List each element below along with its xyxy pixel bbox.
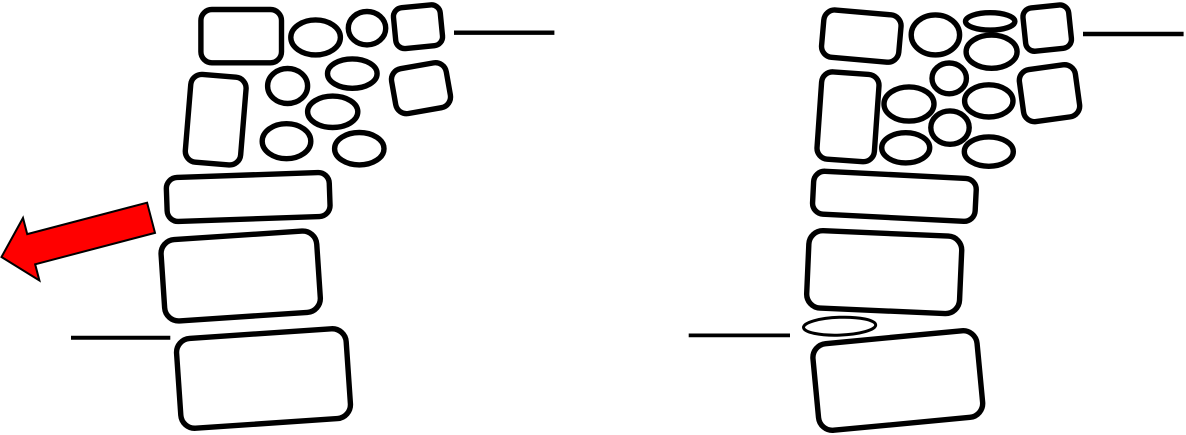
- left spinous process box tall: [184, 74, 247, 166]
- right spinous process box top: [821, 9, 902, 63]
- left facet circle 2: [348, 12, 385, 45]
- left facet ellipse 7: [335, 133, 384, 165]
- right facet ellipse 5: [965, 85, 1013, 117]
- right avulsion flat ellipse: [803, 316, 876, 336]
- left leader line 2: [71, 336, 170, 340]
- left upper articular box 2: [390, 61, 453, 115]
- right upper articular box 1: [1022, 4, 1072, 52]
- left facet ellipse 5: [308, 96, 358, 127]
- left upper articular box 1: [393, 4, 444, 49]
- left spinous process box top: [201, 10, 282, 63]
- right facet ellipse 3: [966, 35, 1017, 68]
- right vertebral body narrow: [812, 171, 977, 222]
- left facet ellipse 1: [291, 20, 341, 55]
- left facet ellipse 3: [268, 69, 308, 104]
- right facet small circle: [932, 63, 966, 94]
- right leader line 1: [1083, 32, 1184, 36]
- right spinous process box tall: [816, 71, 879, 162]
- right vertebral body bottom: [812, 329, 984, 431]
- right facet ellipse 4: [884, 87, 934, 121]
- left facet ellipse 6: [262, 124, 311, 159]
- red displacement arrow: [0, 187, 159, 289]
- left vertebral body middle: [160, 230, 321, 322]
- right facet flat ellipse 2: [966, 13, 1015, 30]
- right facet ellipse 7: [882, 133, 930, 163]
- left facet ellipse 4: [328, 59, 378, 88]
- right facet ellipse 6: [931, 111, 969, 144]
- left leader line 1: [454, 31, 554, 35]
- left vertebral body narrow: [166, 172, 330, 222]
- right facet ellipse 8: [964, 137, 1013, 166]
- right leader line 2: [689, 334, 790, 338]
- right vertebral body middle: [806, 230, 962, 314]
- right upper articular box 2: [1018, 63, 1081, 123]
- right facet ellipse 1: [911, 15, 959, 55]
- left vertebral body bottom: [176, 328, 352, 429]
